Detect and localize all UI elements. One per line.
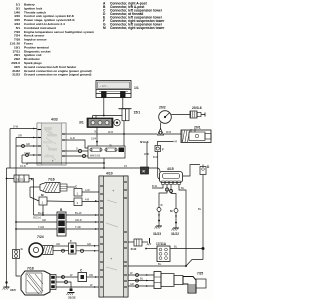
svg-text:T-4R: T-4R <box>75 225 81 229</box>
connector B <box>57 212 66 236</box>
wire F to control unit <box>76 245 99 247</box>
wire left vertical to connector G <box>15 168 17 250</box>
svg-text:S-W: S-W <box>13 125 19 129</box>
control unit 4/10 EZ-K <box>99 176 128 297</box>
svg-text:4/10: 4/10 <box>106 172 113 176</box>
wire battery right terminal down to 15/1 <box>122 98 124 109</box>
wire G down to impulse sender <box>16 259 20 277</box>
wire W-R to distributor branch <box>66 133 157 135</box>
svg-text:GR: GR <box>26 142 30 146</box>
svg-text:8A8 1/63: 8A8 1/63 <box>90 155 101 158</box>
wire D to bottom rail <box>186 260 203 267</box>
svg-text:M: M <box>103 26 106 30</box>
wire G-R instrument to fuse box <box>66 140 88 148</box>
ignition lock 3/1 <box>87 118 120 128</box>
svg-text:BL-W: BL-W <box>75 211 82 215</box>
svg-text:OR: OR <box>89 273 93 277</box>
connector F <box>155 146 161 152</box>
svg-text:BL: BL <box>158 262 162 266</box>
wire M box link <box>30 197 39 201</box>
spark plugs 20/3-6 <box>190 111 205 118</box>
svg-text:B-W: B-W <box>152 184 158 188</box>
wire control unit to 31/2 <box>128 241 134 243</box>
wire diagnostic socket to D wire <box>170 248 203 250</box>
svg-text:31/2: 31/2 <box>131 247 137 251</box>
wire temp sensor left <box>30 186 40 188</box>
connector T box <box>74 198 82 206</box>
wire ignition lock to fuse box <box>96 128 98 147</box>
svg-text:OR: OR <box>18 134 22 138</box>
connector C boxes left of control unit <box>74 189 82 197</box>
svg-text:17/11A: 17/11A <box>156 242 167 246</box>
svg-text:W-R: W-R <box>108 130 113 134</box>
wire impulse sender shield to ground <box>56 282 71 289</box>
svg-text:20/3-6: 20/3-6 <box>192 106 202 110</box>
svg-text:15/4: 15/4 <box>91 137 97 141</box>
svg-text:BL: BL <box>140 276 144 280</box>
wire temp sensor right <box>67 186 75 188</box>
diagnostic socket 17/11A <box>157 246 170 262</box>
svg-text:Ground connection on engine (s: Ground connection on engine (signal grou… <box>24 73 91 77</box>
svg-text:G-R: G-R <box>70 136 75 140</box>
power stage 4/15 <box>160 172 183 185</box>
connector G on instrument output <box>78 149 81 152</box>
wire distributor to spark plugs <box>171 114 190 116</box>
junction dot D wire <box>202 247 205 250</box>
ground bar near 17/11A <box>149 238 151 243</box>
junction triangle <box>158 129 164 136</box>
svg-text:31/23: 31/23 <box>12 73 20 77</box>
svg-text:GR: GR <box>130 282 134 286</box>
legend right column descriptions <box>110 2 165 31</box>
svg-text:GR: GR <box>87 242 91 246</box>
svg-text:+ 12V --: + 12V -- <box>100 84 109 88</box>
svg-text:3/1: 3/1 <box>79 121 84 125</box>
connector C inline <box>157 208 161 212</box>
svg-text:4/15: 4/15 <box>167 167 174 171</box>
svg-text:Y-GR: Y-GR <box>24 151 30 155</box>
wire D down right side <box>202 175 204 260</box>
svg-text:7/25: 7/25 <box>197 272 203 276</box>
svg-text:20/2: 20/2 <box>159 106 166 110</box>
wire instrument feeds <box>10 128 37 130</box>
wire C box to control unit <box>87 276 100 278</box>
svg-text:GR: GR <box>56 242 60 246</box>
svg-text:31 32 1: 31 32 1 <box>16 177 26 181</box>
svg-text:31/23: 31/23 <box>153 232 161 236</box>
wire diagnostic socket left <box>146 248 157 250</box>
svg-text:G: G <box>76 147 78 151</box>
svg-text:7/18: 7/18 <box>27 267 34 271</box>
wire left vertical to bottom ground <box>6 168 8 283</box>
impulse sensor 7/25 wires <box>128 271 154 288</box>
wire impulse sender third <box>56 286 99 288</box>
svg-text:BL: BL <box>174 245 178 249</box>
legend left column descriptions <box>24 3 94 77</box>
distributor 20/2 <box>159 111 172 124</box>
wire feed to ignition lock <box>93 115 123 117</box>
svg-text:4-W: 4-W <box>85 188 90 192</box>
wire power stage pin5 right down <box>179 184 186 266</box>
svg-text:31/5: 31/5 <box>10 288 16 292</box>
wire 15-rail into power stage <box>157 168 160 172</box>
connector circles on feed wires <box>22 145 25 148</box>
svg-text:7/24: 7/24 <box>37 235 44 239</box>
wire knock sensor to F <box>53 245 69 247</box>
wire T box to control unit <box>82 201 99 203</box>
svg-text:BL: BL <box>181 186 185 190</box>
wire instrument outputs to control unit <box>66 150 88 152</box>
wire 15/1 down to fuse box <box>123 121 125 146</box>
impulse sensor 7/25 <box>154 272 206 294</box>
svg-text:4-R: 4-R <box>173 140 177 144</box>
svg-text:10-R: 10-R <box>20 164 26 168</box>
connector M inline <box>174 209 178 213</box>
svg-text:GR: GR <box>42 218 46 222</box>
wire C box to control unit <box>82 191 99 193</box>
svg-text:7-GR: 7-GR <box>38 225 44 229</box>
svg-text:F: F <box>162 148 164 152</box>
wire power stage to connector D <box>183 165 200 177</box>
ground 31/22 <box>172 213 179 231</box>
ground 31/23 <box>155 212 162 229</box>
wire power stage pin3 to ground chain 31/22 <box>170 184 172 193</box>
wire GR into B <box>16 221 57 223</box>
svg-text:W-R: W-R <box>144 152 149 156</box>
connector M box <box>39 197 47 205</box>
wire Y-GR into B <box>16 228 57 230</box>
wire M box down <box>42 205 44 215</box>
knock sensor 7/24 <box>29 243 53 257</box>
wire power stage pin2 to ground chain 31/23 <box>159 184 167 207</box>
ground block 31/2 <box>134 239 142 246</box>
svg-text:7/16: 7/16 <box>48 178 55 182</box>
svg-text:B-R: B-R <box>153 155 158 159</box>
left feed bus <box>9 129 11 169</box>
fuse box 11/1-26 <box>88 145 125 159</box>
svg-text:BL: BL <box>198 207 202 211</box>
impulse sender 7/18 <box>21 271 56 295</box>
ignition coil 20/1 <box>181 129 211 143</box>
connector G <box>13 250 20 259</box>
wire power stage pin1 left <box>152 184 163 188</box>
connector D <box>200 165 206 175</box>
wire junction to ignition coil <box>164 133 182 135</box>
ground 31/32 <box>67 289 75 296</box>
ground left bottom 31/5 <box>3 281 10 289</box>
wire T from instrument area <box>26 163 28 165</box>
svg-text:Connector, right suspension to: Connector, right suspension tower <box>110 26 165 30</box>
wire F down to power stage <box>158 152 160 180</box>
connector C box <box>78 273 87 282</box>
battery 1/1 <box>96 81 131 98</box>
svg-text:31/22: 31/22 <box>171 232 179 236</box>
bottom rail BL <box>128 265 186 267</box>
temperature sensor 7/16 <box>40 183 67 193</box>
svg-text:4/33: 4/33 <box>51 118 58 122</box>
wire branch to relay box <box>146 142 148 168</box>
connector F knock <box>69 243 77 254</box>
wire from A down to B connector <box>33 179 35 216</box>
svg-text:W-R: W-R <box>166 130 171 134</box>
svg-text:GR-R: GR-R <box>75 218 82 222</box>
legend right column letters <box>103 2 106 31</box>
svg-text:1/1: 1/1 <box>134 86 139 90</box>
svg-text:31/32: 31/32 <box>68 296 76 300</box>
svg-text:F: F <box>70 239 72 243</box>
wire distributor down to junction <box>160 123 162 130</box>
svg-text:20/1: 20/1 <box>194 126 201 130</box>
wire battery left terminal down <box>103 98 105 116</box>
connector A <box>14 175 29 182</box>
wire junction branch to connector F <box>158 142 174 146</box>
svg-text:4-R: 4-R <box>85 198 89 202</box>
wire bus to connector A <box>7 178 15 180</box>
wire B outputs to control unit <box>66 214 99 216</box>
wire fuse output down and 15-feed rail <box>103 158 105 168</box>
wires impulse sender to control unit <box>56 276 78 278</box>
svg-text:15/1: 15/1 <box>134 111 141 115</box>
svg-text:50C(+): 50C(+) <box>33 216 41 220</box>
relay box <box>141 167 149 174</box>
combined instrument 4/33 <box>37 123 66 165</box>
svg-text:8/1A-6: 8/1A-6 <box>140 140 149 144</box>
positive terminal 15/1 <box>119 109 132 121</box>
legend left column numbers <box>10 3 21 77</box>
